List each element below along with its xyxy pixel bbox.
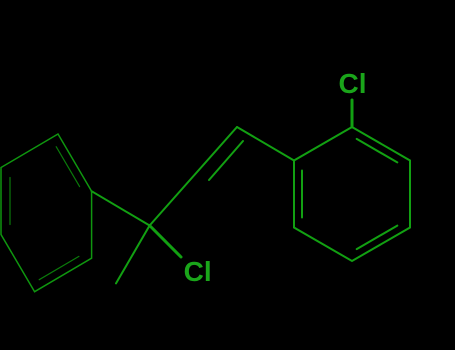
bond C-Cl top	[351, 100, 354, 127]
double bond inner line Z2-A2	[39, 256, 79, 279]
label Cl bottom	[184, 256, 212, 288]
double bond inner line LL-UL	[301, 171, 303, 218]
double bond inner line chain	[209, 141, 243, 180]
benzene ring right (2-chlorophenyl)	[294, 127, 410, 261]
double bond inner line LR-B	[357, 226, 398, 250]
double bond inner line W-W2	[9, 178, 11, 225]
bond ring to Ca	[237, 127, 294, 161]
bond chain Ca to V long	[150, 127, 237, 226]
benzene ring left	[1, 134, 92, 292]
bond V-Cl bottom	[150, 226, 181, 258]
double bond inner line A-TL	[56, 147, 79, 187]
bond V to ring left	[92, 191, 150, 225]
label Cl top	[339, 68, 367, 100]
double bond inner line T-UR	[357, 139, 398, 163]
bond V methyl	[116, 226, 150, 284]
